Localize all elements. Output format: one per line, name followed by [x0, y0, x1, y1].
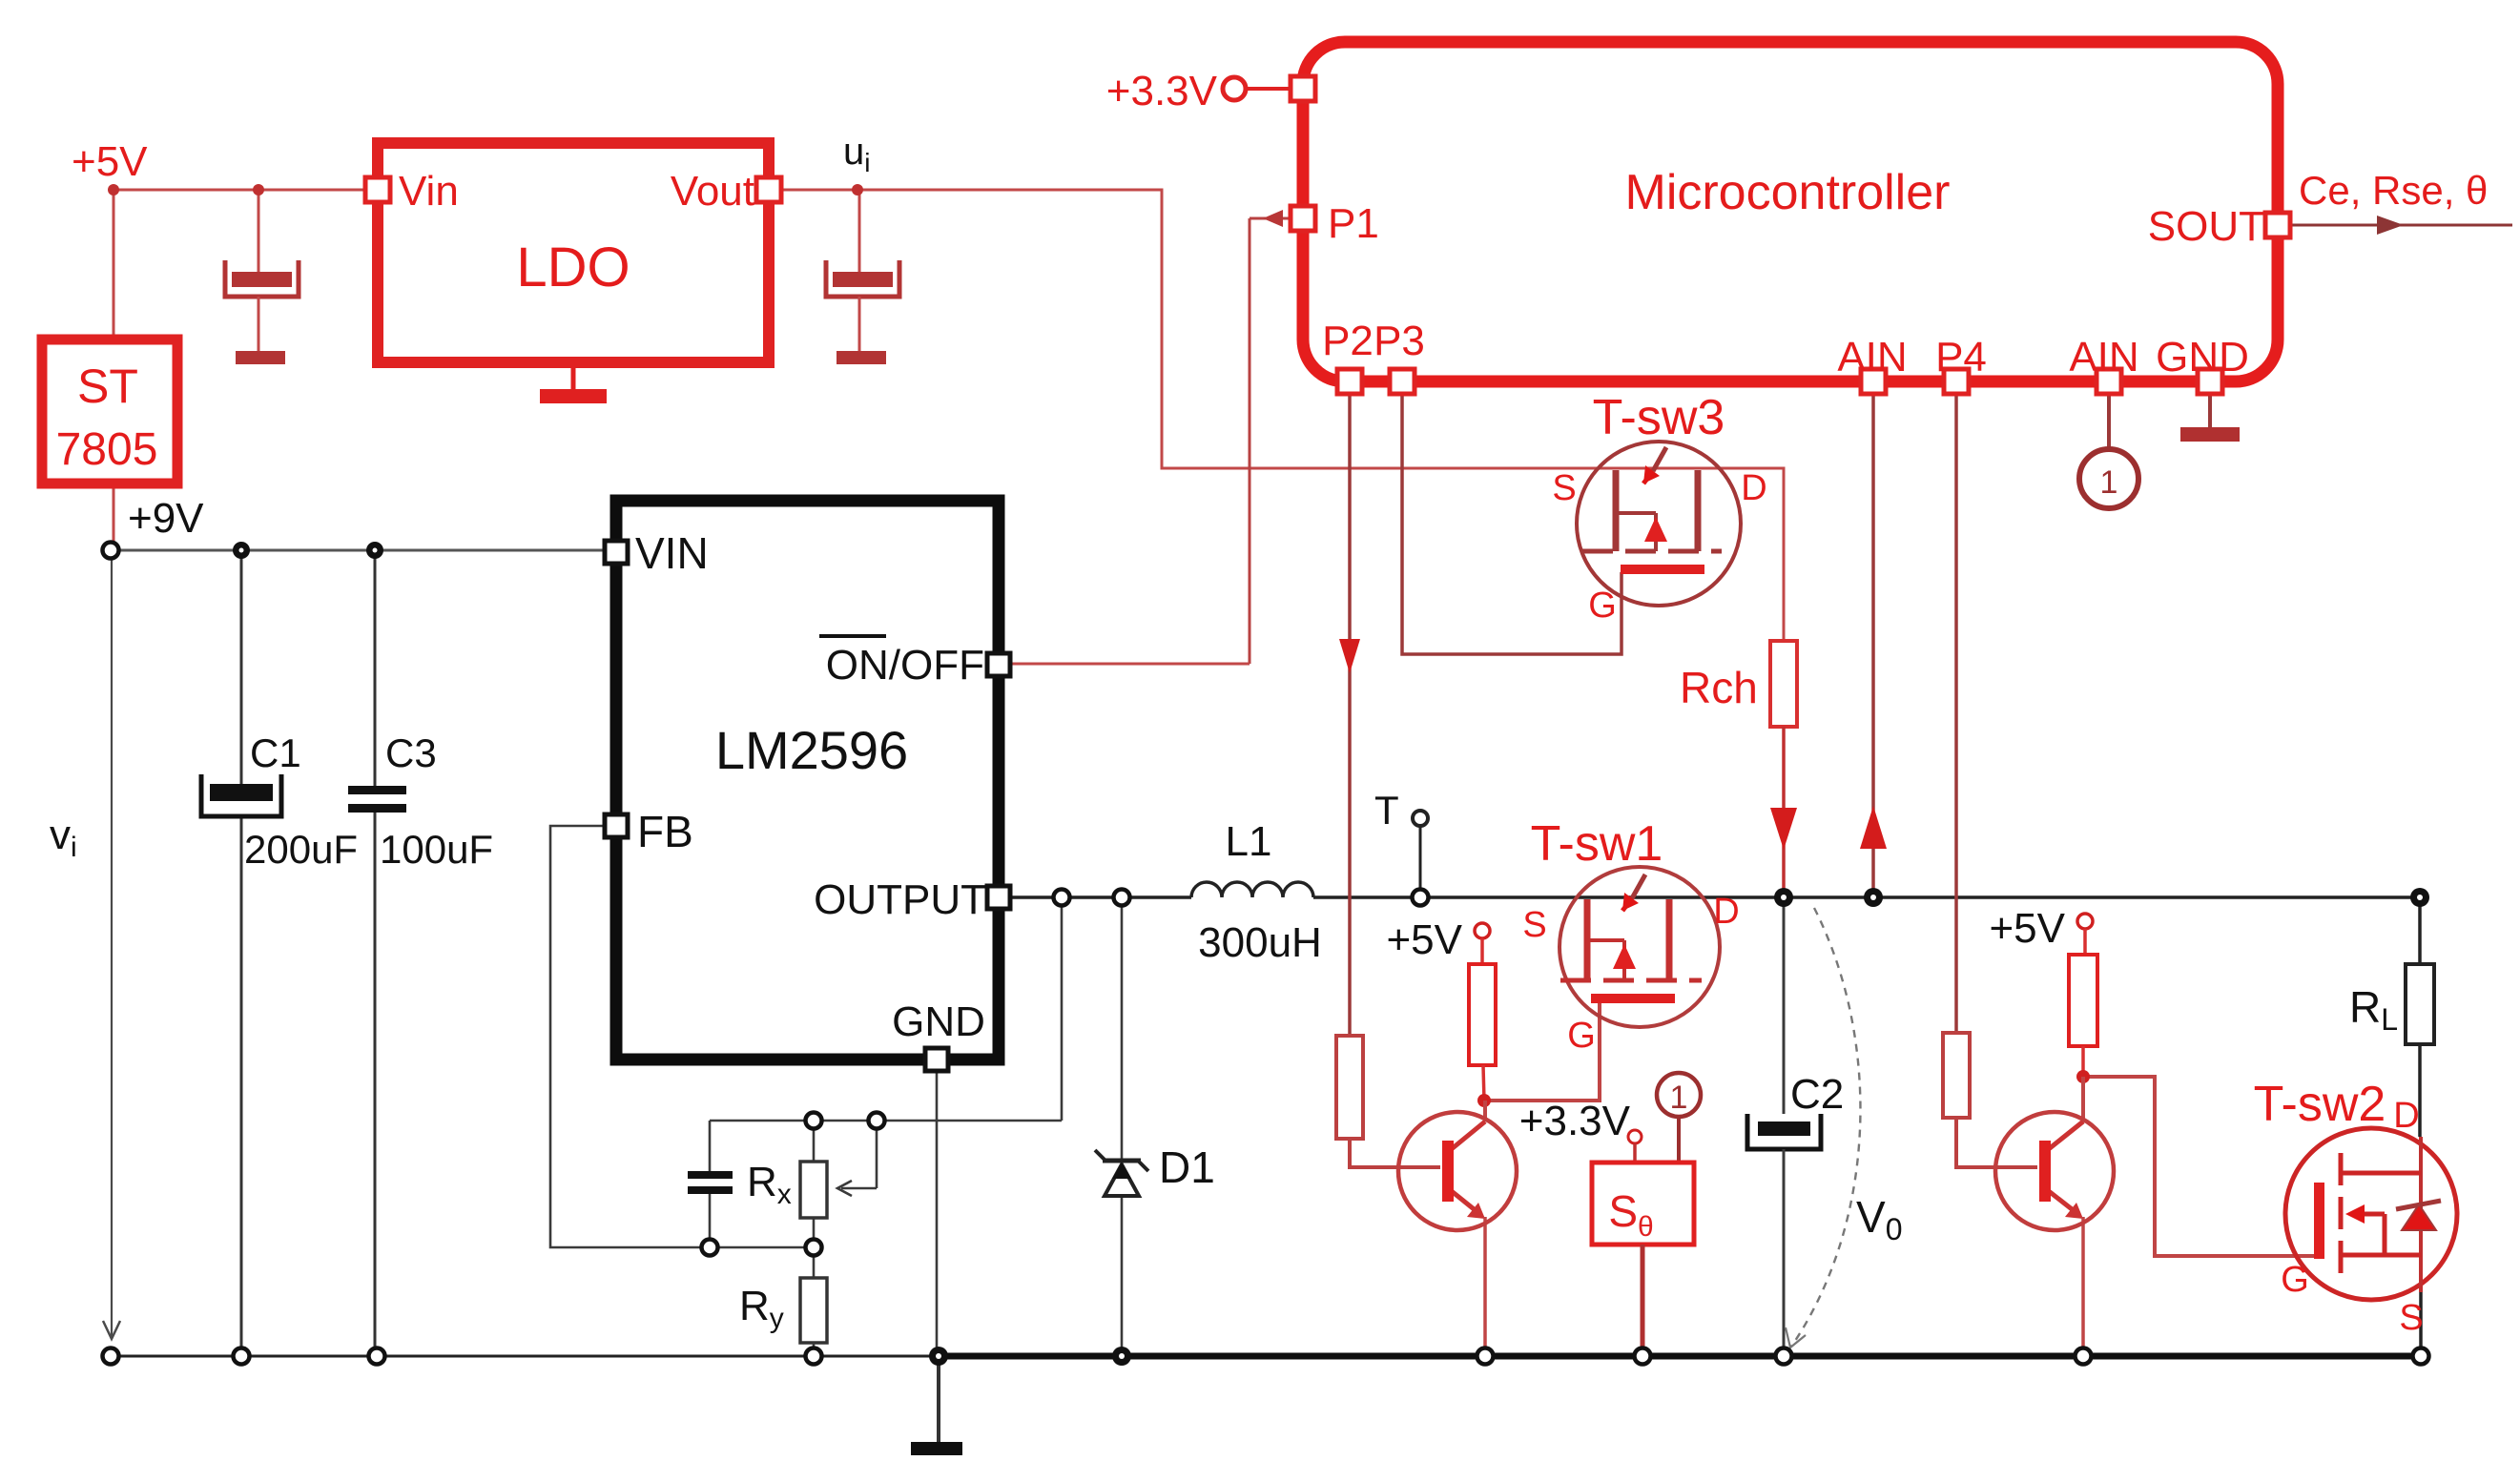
svg-text:S: S	[2399, 1298, 2423, 1338]
svg-text:Vin: Vin	[399, 168, 459, 215]
svg-text:G: G	[1588, 586, 1617, 626]
svg-text:+5V: +5V	[1989, 905, 2065, 952]
svg-text:100uF: 100uF	[380, 827, 493, 872]
svg-text:C2: C2	[1790, 1071, 1844, 1118]
svg-text:D1: D1	[1159, 1142, 1215, 1192]
svg-text:Microcontroller: Microcontroller	[1625, 165, 1951, 220]
svg-text:S: S	[1552, 468, 1576, 508]
svg-text:SOUT: SOUT	[2148, 203, 2264, 250]
svg-text:G: G	[1567, 1016, 1596, 1056]
svg-text:ST: ST	[77, 360, 138, 413]
svg-text:T-sw2: T-sw2	[2254, 1077, 2386, 1132]
svg-text:LDO: LDO	[516, 237, 630, 298]
svg-text:S: S	[1522, 905, 1546, 945]
svg-text:P3: P3	[1374, 318, 1425, 364]
svg-text:Vout: Vout	[671, 168, 754, 215]
svg-text:P2: P2	[1322, 318, 1374, 364]
svg-text:1: 1	[1670, 1080, 1688, 1116]
svg-text:L1: L1	[1226, 818, 1272, 865]
svg-text:200uF: 200uF	[244, 827, 358, 872]
svg-text:T-sw3: T-sw3	[1593, 390, 1725, 445]
svg-text:7805: 7805	[56, 424, 158, 475]
svg-text:G: G	[2281, 1260, 2309, 1300]
svg-text:D: D	[1741, 468, 1766, 508]
svg-text:AIN: AIN	[1837, 334, 1907, 381]
svg-text:300uH: 300uH	[1198, 919, 1322, 966]
svg-text:LM2596: LM2596	[715, 720, 908, 780]
svg-text:+9V: +9V	[128, 495, 204, 542]
svg-text:Ce, Rse, θ: Ce, Rse, θ	[2299, 168, 2488, 213]
svg-text:FB: FB	[637, 807, 693, 856]
svg-text:+3.3V: +3.3V	[1519, 1098, 1631, 1144]
svg-text:OUTPUT: OUTPUT	[814, 876, 986, 923]
svg-text:P4: P4	[1935, 334, 1987, 381]
svg-text:C1: C1	[250, 730, 301, 775]
svg-text:T: T	[1374, 788, 1399, 833]
svg-text:D: D	[2393, 1096, 2419, 1136]
svg-text:Rch: Rch	[1680, 663, 1758, 712]
svg-text:C3: C3	[385, 730, 437, 775]
svg-text:1: 1	[2100, 464, 2118, 501]
svg-text:ON/OFF: ON/OFF	[826, 642, 984, 689]
svg-text:P1: P1	[1328, 200, 1379, 247]
svg-text:+3.3V: +3.3V	[1106, 68, 1218, 114]
svg-text:+5V: +5V	[1386, 916, 1462, 963]
svg-text:+5V: +5V	[72, 138, 148, 185]
svg-text:D: D	[1713, 892, 1739, 932]
svg-text:GND: GND	[892, 998, 985, 1045]
svg-text:GND: GND	[2156, 334, 2249, 381]
svg-text:AIN: AIN	[2069, 334, 2138, 381]
svg-text:VIN: VIN	[635, 528, 709, 578]
svg-text:T-sw1: T-sw1	[1531, 816, 1663, 872]
